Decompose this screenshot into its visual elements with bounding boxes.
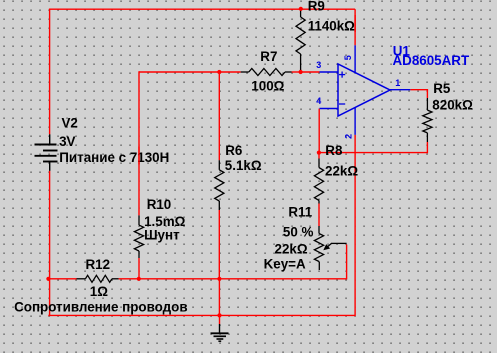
svg-text:22kΩ: 22kΩ	[275, 242, 308, 257]
svg-text:1140kΩ: 1140kΩ	[308, 18, 355, 33]
svg-text:AD8605ART: AD8605ART	[393, 53, 470, 68]
svg-text:3: 3	[316, 60, 321, 70]
svg-text:R10: R10	[147, 197, 172, 212]
svg-text:Питание с 7130H: Питание с 7130H	[59, 150, 169, 165]
svg-text:R8: R8	[325, 143, 343, 158]
svg-text:1Ω: 1Ω	[90, 284, 108, 299]
svg-text:R11: R11	[288, 205, 312, 220]
svg-text:Key=A: Key=A	[264, 257, 306, 272]
svg-text:5.1kΩ: 5.1kΩ	[225, 158, 262, 173]
svg-text:R5: R5	[433, 81, 451, 96]
svg-text:50 %: 50 %	[283, 224, 314, 239]
svg-text:R6: R6	[225, 143, 242, 158]
svg-text:100Ω: 100Ω	[251, 78, 284, 93]
svg-text:R7: R7	[260, 49, 277, 64]
svg-text:3V: 3V	[59, 134, 75, 149]
svg-text:R12: R12	[86, 257, 111, 272]
svg-text:5: 5	[343, 55, 353, 60]
svg-text:R9: R9	[308, 0, 325, 14]
svg-text:Шунт: Шунт	[144, 227, 180, 242]
svg-text:1: 1	[395, 78, 400, 88]
svg-text:V2: V2	[62, 116, 78, 131]
svg-text:22kΩ: 22kΩ	[325, 164, 358, 179]
svg-text:Сопротивление проводов: Сопротивление проводов	[14, 300, 188, 315]
svg-text:2: 2	[344, 134, 354, 139]
svg-text:4: 4	[316, 96, 321, 106]
svg-text:820kΩ: 820kΩ	[432, 97, 473, 112]
